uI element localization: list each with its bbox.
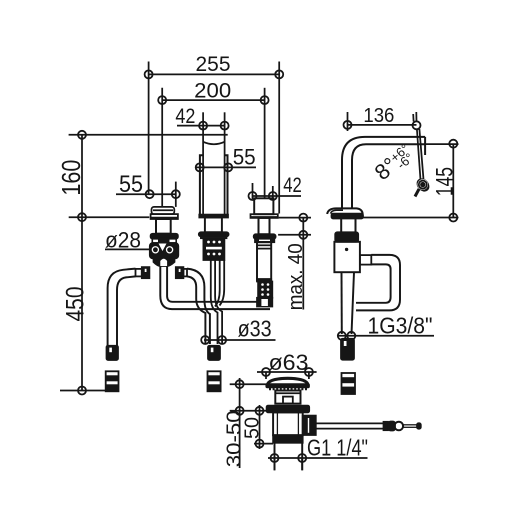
node 160 top (78, 131, 86, 139)
drain pull rod bottom line (316, 428, 384, 430)
node o63 left (262, 368, 270, 376)
drain body lower inner wall left (276, 412, 278, 435)
side view hose connector band1 (342, 377, 356, 383)
right handle flange bottom edge (251, 216, 278, 218)
right valve body line2 (257, 248, 271, 250)
left valve nut band (151, 234, 178, 239)
side view lever knob (415, 177, 431, 193)
dimension 42 right line (253, 195, 302, 197)
extension line right of 255 (278, 62, 280, 214)
svg-text:42: 42 (175, 105, 195, 128)
left handle knob (152, 207, 175, 214)
drain pull rod top line (316, 422, 384, 424)
right handle knob (254, 198, 273, 214)
hose left end fitting slit (109, 348, 112, 353)
drain thread band (269, 388, 307, 391)
extension tick below o63 right (308, 372, 310, 379)
horizontal pipe bottom wall (172, 308, 270, 310)
left valve nut band2 blob (158, 239, 170, 242)
node 450 bottom (78, 387, 86, 395)
dimension 136 line (348, 124, 417, 126)
spout shank dark (203, 238, 224, 260)
node 55 mid a (196, 163, 204, 171)
drain outlet block (303, 416, 316, 435)
spout hose C right wall (220, 260, 225, 306)
left valve outlet tube right wall (167, 266, 172, 302)
spout hose end fitting (208, 346, 220, 360)
node 200 right (261, 96, 269, 104)
drain body lower inner wall right (297, 412, 299, 435)
left valve left pipe piece (136, 269, 142, 277)
side view hose right wall (352, 272, 355, 334)
side view flange inner curve (331, 210, 344, 213)
node G38 a (338, 332, 346, 340)
svg-text:145: 145 (432, 167, 459, 196)
node o33 left (201, 336, 209, 344)
leader line o28 (105, 248, 149, 250)
side view arm end (424, 137, 426, 155)
reference line deck left (69, 216, 150, 218)
node max40 top (299, 214, 307, 222)
right valve nut band2 (255, 239, 274, 243)
right valve body (257, 242, 271, 280)
spout aerator arc (203, 142, 225, 144)
label 8 degrees (370, 141, 417, 185)
node 255 left (145, 70, 153, 78)
node 200 left (158, 96, 166, 104)
drain body upper (275, 391, 300, 404)
spout tube right wall (224, 126, 226, 215)
dimension 160-450 vertical line (81, 135, 83, 391)
dimension 1G3/8 line (338, 335, 434, 337)
node 42 top right (221, 122, 229, 130)
node 55 mid b (224, 163, 232, 171)
svg-text:ø63: ø63 (269, 350, 309, 375)
node G38 b (347, 332, 355, 340)
hose left connector (106, 371, 119, 391)
left handle stem (156, 219, 171, 234)
drain outlet block slit (308, 418, 310, 433)
left valve outlet tube left wall (160, 266, 172, 309)
extension tick above 136 left (347, 112, 349, 131)
right valve bottom connection dark (257, 298, 272, 307)
drain rod collar (384, 422, 389, 430)
elbow pipe inner wall (187, 276, 205, 344)
spout hose connector band2 (208, 384, 221, 391)
drain tail pipe right wall (301, 443, 303, 471)
left handle flange (151, 214, 178, 219)
side view lever tick right (415, 112, 417, 121)
spout shell right wall (225, 155, 228, 214)
spout neck (205, 218, 222, 233)
side view lever shaft left line (417, 129, 421, 180)
right valve nut band (254, 234, 276, 238)
node 255 right (275, 70, 283, 78)
left valve nut band2 (152, 239, 176, 243)
node 136 right (413, 121, 421, 129)
drain dome base bar (266, 384, 309, 387)
reference line 30-50 top (230, 383, 268, 385)
extension tick above 42 right second (272, 186, 274, 199)
extension line left of 255 (148, 62, 150, 195)
drain rod tip (403, 424, 417, 426)
hose left connector band1 (106, 375, 119, 381)
node 50 bottom (256, 440, 264, 448)
extension tick above 55 left (175, 182, 177, 207)
node o63 right (305, 368, 313, 376)
dimension max40 vertical line (302, 218, 304, 310)
dimension o63 line (257, 371, 317, 373)
svg-text:55: 55 (233, 144, 256, 169)
reference line 160 top (69, 134, 228, 136)
side view nut (335, 232, 358, 242)
spout shell left wall (200, 155, 203, 214)
left valve bottom arch white (160, 259, 167, 266)
reference line max40 bottom (278, 234, 311, 236)
dimension 50 vertical line (259, 405, 261, 449)
side view flange mound (327, 208, 363, 214)
reference line 30-50 bottom (230, 410, 267, 412)
svg-text:136: 136 (363, 105, 394, 127)
side view lever shaft right line (419, 129, 423, 181)
svg-text:ø28: ø28 (105, 228, 141, 253)
side view shank right wall (355, 218, 357, 232)
left valve body eye right (165, 245, 174, 254)
spout flange light band (201, 236, 227, 238)
hose left connector band2 (106, 384, 119, 391)
leader line o33 (204, 339, 276, 341)
node 42 top left (199, 122, 207, 130)
right handle flange (251, 214, 278, 218)
extension line right of 200 (264, 88, 266, 199)
dimension 55 left line (116, 193, 176, 195)
drain rod ball (395, 422, 404, 431)
node 160 bottom (78, 213, 86, 221)
spout hose connector (208, 371, 221, 391)
node 55 left b (172, 190, 180, 198)
drain body upper detail (283, 397, 293, 404)
reference line 50 bottom (254, 443, 273, 445)
node lever knob (419, 181, 427, 189)
side view hose left wall (341, 272, 343, 334)
dimension 145 vertical line (452, 144, 454, 218)
drain wide band (267, 406, 310, 413)
hose left end fitting (107, 346, 119, 360)
reference line 145 top (425, 143, 458, 145)
dimension 42 top line (177, 125, 225, 127)
node 42 right b (269, 192, 277, 200)
right handle stem (259, 218, 270, 234)
svg-text:200: 200 (194, 79, 231, 102)
node circles (78, 70, 457, 462)
right valve nut band2 highlight (259, 239, 270, 241)
left valve body (150, 243, 179, 258)
spout hose connector band1 (208, 375, 221, 381)
node 136 left (344, 121, 352, 129)
node 55 left a (146, 190, 154, 198)
drain rod tip cap (417, 423, 421, 428)
drain body upper line (275, 392, 300, 394)
side view hose connector (342, 373, 356, 394)
right valve bottom connection white square (261, 299, 268, 306)
drain rod joint piece (389, 422, 396, 431)
extension tick below G114 right (301, 458, 303, 470)
drain dome arc (267, 378, 308, 385)
dimension G1 1/4 line (268, 457, 368, 459)
svg-text:1G3/8": 1G3/8" (368, 313, 433, 339)
extension ticks above 42 top (202, 112, 204, 125)
node G114 right (298, 454, 306, 462)
spout hose C left wall (215, 260, 220, 307)
side view loop pipe inner wall (356, 264, 391, 302)
right valve body line1 (257, 244, 271, 246)
left handle knob inner line (153, 209, 173, 211)
dimension 55 middle line (196, 166, 256, 168)
side view riser left wall (342, 137, 425, 209)
svg-text:255: 255 (196, 53, 231, 76)
left valve body eye left (151, 245, 160, 254)
svg-text:ø33: ø33 (238, 316, 272, 342)
side view hose fitting (341, 339, 354, 360)
side view loop pipe outer wall (356, 255, 400, 311)
drain band below body (273, 435, 303, 443)
svg-text:max. 40: max. 40 (285, 243, 307, 310)
extension tick above 42 right (252, 183, 254, 199)
spout hose end fitting slit (211, 348, 214, 353)
left valve right pipe piece (183, 269, 187, 277)
dimension 255 line (149, 73, 280, 75)
node G114 left (271, 454, 279, 462)
extension tick below o63 left (265, 372, 267, 379)
extension line left of 200 (161, 88, 163, 207)
hose left outer wall (108, 269, 136, 346)
svg-text:G1 1/4": G1 1/4" (307, 434, 368, 460)
node max40 bottom (299, 231, 307, 239)
dimension 200 line (162, 99, 264, 101)
side view flange base (332, 214, 364, 219)
left valve body eye dots (153, 247, 158, 252)
reference line max40 top (279, 217, 311, 219)
horizontal pipe top wall (173, 301, 263, 303)
svg-text:50: 50 (241, 417, 263, 439)
side view hose fitting slit (344, 341, 347, 346)
node 30-50 bottom (236, 407, 244, 415)
spout hose B right wall (215, 260, 222, 344)
node 42 right a (249, 192, 257, 200)
spout tube left wall (202, 126, 204, 215)
side view shank left wall (340, 218, 342, 232)
left valve right nut fitting (176, 267, 184, 278)
spout flange (199, 232, 229, 236)
svg-text:450: 450 (62, 287, 90, 322)
right valve thread dots (261, 283, 269, 296)
spout shank white dots (207, 241, 221, 256)
node 30-50 top (236, 380, 244, 388)
svg-text:42: 42 (283, 174, 302, 197)
node 145 top (449, 140, 457, 148)
left valve body notch (159, 244, 167, 252)
side view lever knob tail (415, 189, 419, 197)
side view valve body (334, 242, 360, 272)
left handle flange bottom edge (151, 217, 178, 219)
reference line 450 bottom (60, 390, 106, 392)
spout hose B left wall (211, 260, 218, 344)
svg-text:55: 55 (119, 171, 143, 198)
left valve left nut fitting (142, 267, 150, 278)
dimension 30-50 vertical line (239, 378, 241, 468)
right valve threaded part (258, 282, 272, 298)
side view lever tick left (412, 114, 414, 122)
side view riser right wall (352, 144, 425, 208)
extension tick below G114 left (274, 458, 276, 470)
left valve bottom arch (154, 258, 175, 266)
spout bottom rim (199, 215, 228, 218)
node 50 top (256, 407, 264, 415)
elbow pipe outer wall (187, 269, 210, 344)
side view deck line (363, 217, 459, 219)
drain body lower (273, 412, 303, 435)
node o33 right (218, 336, 226, 344)
drain tail pipe left wall (274, 443, 276, 471)
side view valve body dot (345, 248, 348, 251)
side view hose connector band2 (342, 387, 356, 394)
right valve body band (257, 279, 271, 282)
spout shank white band (206, 247, 222, 250)
node 145 bottom (449, 214, 457, 222)
svg-text:160: 160 (56, 160, 86, 196)
side view outlet (360, 255, 371, 265)
hose left inner wall (117, 276, 136, 345)
